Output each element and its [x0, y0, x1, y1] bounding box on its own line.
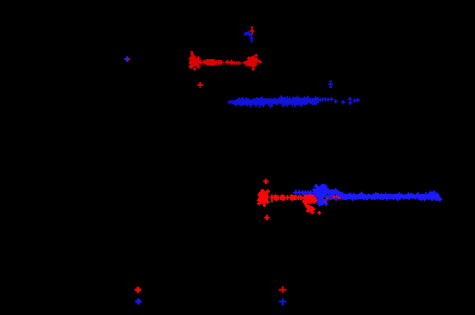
legend 2: red errorbar sample at (282.6,289.8): [279, 286, 287, 293]
top plot red series: vertical errorbar at x=192: [190, 52, 193, 59]
top plot red series: row of markers with errorbars y~62.4: [198, 59, 234, 66]
bottom plot red series: big dense blob near (263,198): [259, 192, 268, 206]
top plot red series: tight marker run x 231-240 y~63: [230, 61, 241, 65]
top plot red series: right-edge markers near (260,62): [258, 60, 262, 64]
bottom plot red series: marker right of blue blob at (325,202): [323, 200, 327, 204]
top plot: blue cluster markers near (248,33): [244, 31, 253, 37]
top plot: overlapped red outlier marker at (127,59): [125, 57, 130, 62]
top plot blue series: outlier with errorbar at (330.5,84): [328, 81, 333, 87]
bottom plot red series: dense cluster x 304-317 with downward tail: [305, 194, 316, 203]
bottom plot red series: outlier marker at (267,218): [264, 215, 269, 220]
top plot: blue marker with vertical errorbar at (251.6,38): [250, 35, 254, 42]
legend 1: red point sample at (137.7,289.7): [135, 287, 141, 293]
bottom plot blue series: cluster blob near (432.7,196.4): [428, 193, 438, 200]
bottom plot red series: outlier marker at (266,181): [263, 179, 268, 184]
bottom plot blue series: marker below blob at (326,204): [324, 202, 328, 206]
top plot blue series: sparse leading markers x 229-234: [228, 100, 237, 104]
legend 2: blue errorbar sample at (282.6,301.5): [279, 298, 287, 305]
bottom plot red series: marker row x 270-301 y~197.6: [269, 194, 303, 202]
legend 1: blue point sample at (138.2,301.5): [135, 298, 141, 304]
top plot red series: dense cluster blob near (252.6,62): [248, 57, 257, 68]
top plot red series: markers with vertical bars x 242-247: [242, 60, 249, 66]
bottom plot blue series: dense band x 328-441 y~196.5: [329, 190, 439, 199]
top plot blue series: dense band x 235-332 y~101: [237, 98, 319, 104]
top plot: overlapped blue outlier marker at (127,59): [124, 56, 129, 61]
bottom plot blue series: leading marker row x 295-312 y~192.6: [293, 190, 313, 196]
bottom plot blue series: big dense blob near (320,193): [314, 187, 326, 199]
top plot red series: outlier marker at (200,85): [197, 82, 203, 88]
bottom plot red series: trailing markers x 327-341 under blue band: [325, 195, 342, 199]
top plot blue series: trailing sparse markers x 335-358: [334, 97, 360, 105]
top plot red series: dense cluster blob near (194,62): [190, 58, 198, 67]
top plot: red marker with vertical errorbar at (252,31): [250, 27, 255, 34]
